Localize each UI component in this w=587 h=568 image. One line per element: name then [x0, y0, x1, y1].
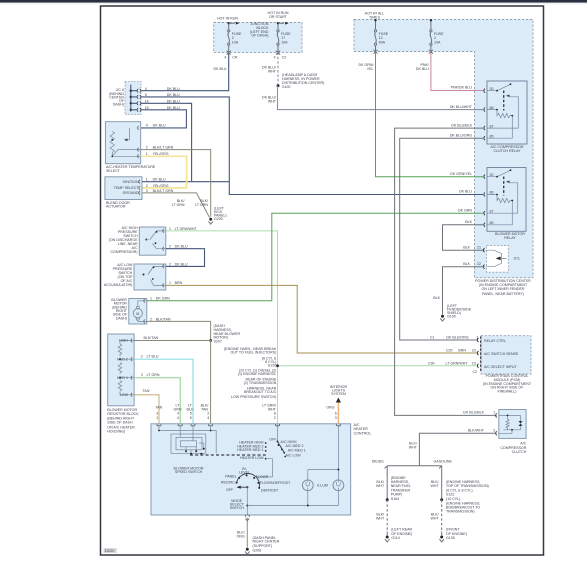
svg-text:BLK/LT GRN: BLK/LT GRN [153, 189, 174, 193]
svg-text:LOW PRESSURE SWITCH): LOW PRESSURE SWITCH) [231, 395, 276, 399]
wire ORG interior lights to control head [337, 403, 339, 424]
svg-text:FLOOR/DEFROST: FLOOR/DEFROST [260, 481, 291, 485]
svg-text:OFF: OFF [269, 438, 277, 442]
fuse 2 10A (junction block) [228, 23, 230, 53]
svg-text:ORG: ORG [326, 406, 334, 410]
svg-text:86: 86 [490, 106, 494, 110]
label J/C 6 [109, 88, 125, 106]
svg-text:HOUSING): HOUSING) [107, 430, 125, 434]
svg-text:CONTROL: CONTROL [354, 431, 372, 435]
label HOT AT ALL TIMES [365, 11, 385, 19]
svg-text:BLK/LT GRN: BLK/LT GRN [153, 145, 174, 149]
svg-text:2: 2 [493, 429, 495, 433]
svg-text:SWITCH: SWITCH [230, 506, 245, 510]
svg-text:BRN: BRN [175, 281, 183, 285]
mode select switch [237, 474, 260, 488]
svg-text:OUT TO FUEL INJECTORS): OUT TO FUEL INJECTORS) [230, 351, 276, 355]
wire DK BLU J/C6 pin5 to blower relay 86 [141, 97, 483, 195]
svg-text:WHT: WHT [431, 484, 440, 488]
svg-text:21: 21 [477, 245, 481, 249]
svg-text:TIMES: TIMES [369, 16, 381, 20]
ground G200 [209, 218, 212, 221]
svg-text:TAN: TAN [155, 406, 162, 410]
label A/C COMPRESSOR CLUTCH RELAY [491, 145, 524, 153]
wire DK BLU blend door ignition [142, 181, 229, 183]
wire DK BLU/BLK relay 87 to compressor clutch [395, 128, 497, 415]
svg-text:WHT: WHT [376, 517, 385, 521]
svg-text:HEATER LOW: HEATER LOW [240, 456, 264, 460]
connector cavity numbers [156, 412, 337, 420]
fuse 12 40A (PDC) [374, 20, 376, 52]
control head bottom pin [245, 515, 249, 517]
wire DK BLU high to low pressure switch [166, 249, 205, 267]
svg-text:G114: G114 [391, 536, 400, 540]
svg-text:DK GRN/YEL: DK GRN/YEL [450, 172, 472, 176]
svg-text:RIGHT CENTER: RIGHT CENTER [253, 540, 280, 544]
svg-text:87: 87 [490, 124, 494, 128]
label POWER DISTRIBUTION CENTER [475, 279, 531, 296]
splice S207 [209, 339, 212, 342]
label A/C HIGH PRESSURE SWITCH [109, 226, 139, 254]
svg-text:1: 1 [150, 297, 152, 301]
svg-text:DK GRN: DK GRN [458, 208, 472, 212]
svg-text:LT GRN: LT GRN [147, 373, 160, 377]
svg-text:WHT: WHT [268, 70, 277, 74]
svg-text:C2: C2 [473, 370, 478, 374]
svg-text:G206: G206 [253, 548, 262, 552]
wire BLK/LT GRN blend door ground to G200 [142, 193, 210, 218]
svg-text:10A: 10A [232, 40, 239, 44]
svg-text:BLK: BLK [463, 262, 470, 266]
svg-text:2: 2 [274, 416, 276, 420]
svg-text:IGNITION: IGNITION [123, 180, 139, 184]
svg-text:RELAY CTRL: RELAY CTRL [484, 339, 506, 343]
stamp 12020 [103, 548, 116, 553]
svg-text:WHT: WHT [376, 484, 385, 488]
blower motor [129, 299, 147, 325]
A/C heater control box [151, 424, 351, 515]
svg-text:SYSTEM: SYSTEM [331, 392, 346, 396]
svg-text:10A: 10A [434, 40, 441, 44]
label A/C LOW PRESSURE SWITCH [104, 263, 133, 287]
label BLOWER MOTOR SPEED SWITCH [174, 466, 204, 474]
svg-text:MED 1: MED 1 [117, 376, 128, 380]
svg-text:23: 23 [472, 349, 476, 353]
ground G206 [246, 548, 249, 551]
svg-text:S122: S122 [446, 492, 454, 496]
svg-text:C1: C1 [430, 336, 435, 340]
svg-text:3: 3 [141, 373, 143, 377]
A/C low pressure switch [134, 264, 166, 290]
svg-text:10A: 10A [281, 40, 288, 44]
illumination lamps [308, 426, 339, 480]
svg-text:4: 4 [177, 416, 179, 420]
interior lights system arrow [330, 385, 348, 396]
svg-text:LOW: LOW [120, 393, 129, 397]
svg-text:BLK: BLK [433, 296, 440, 300]
wire YEL/ORG temp select to blend door [141, 156, 187, 188]
blend door actuator [105, 177, 142, 200]
svg-text:DK GRN: DK GRN [156, 297, 170, 301]
label BLOWER MOTOR RELAY [495, 232, 525, 240]
splice S120 text block [224, 347, 277, 399]
svg-text:G105: G105 [446, 536, 455, 540]
svg-text:MED 2: MED 2 [117, 357, 128, 361]
svg-text:LEVEL: LEVEL [239, 471, 250, 475]
svg-text:BLK/TAN: BLK/TAN [156, 317, 171, 321]
svg-text:DK BLU: DK BLU [459, 190, 472, 194]
svg-text:DASH): DASH) [113, 103, 124, 107]
A/C high pressure switch [139, 227, 166, 255]
splice S100 [277, 84, 280, 87]
svg-text:22: 22 [477, 262, 481, 266]
svg-text:2: 2 [150, 317, 152, 321]
wire BLK/WHT compressor clutch to engine grounds [419, 433, 496, 466]
wire BLK/ORG control head to G206 [246, 518, 248, 548]
link heater low to mode floor contact [255, 459, 272, 477]
svg-text:BLK/TAN: BLK/TAN [144, 336, 159, 340]
svg-text:(1) ENGINE HARNESS,: (1) ENGINE HARNESS, [238, 372, 277, 376]
svg-text:HIGH: HIGH [119, 339, 128, 343]
label POWERTRAIN CONTROL MODULE [483, 374, 532, 394]
svg-text:WHT: WHT [431, 517, 440, 521]
svg-text:RESISTOR BLOCK: RESISTOR BLOCK [107, 412, 139, 416]
svg-text:86: 86 [490, 191, 494, 195]
powertrain control module PCM [477, 336, 531, 374]
svg-text:30: 30 [490, 173, 494, 177]
svg-text:12020: 12020 [104, 549, 114, 553]
A/C compressor clutch [496, 410, 526, 439]
svg-text:A/C SWITCH SENSE: A/C SWITCH SENSE [484, 352, 519, 356]
svg-text:OFF: OFF [226, 488, 234, 492]
svg-text:2: 2 [169, 245, 171, 249]
svg-text:A/C MED 1: A/C MED 1 [288, 449, 306, 453]
svg-text:1: 1 [476, 336, 478, 340]
fusible link JC1 [483, 246, 508, 273]
ground G114 [386, 536, 389, 539]
svg-text:DK BLU: DK BLU [416, 67, 429, 71]
svg-text:SELECT: SELECT [106, 169, 121, 173]
wire BLK/TAN resistor high to control head [134, 341, 211, 424]
svg-text:2: 2 [141, 355, 143, 359]
svg-text:23: 23 [472, 361, 476, 365]
svg-text:A/C MED 2: A/C MED 2 [286, 444, 304, 448]
label A/C HEATER CONTROL [354, 423, 372, 436]
svg-text:JC1: JC1 [514, 257, 520, 261]
wire DK BLU J/C6 pin15 to temp select pin4 [141, 110, 187, 128]
svg-text:DK BLU: DK BLU [167, 87, 180, 91]
svg-text:GASOLINE: GASOLINE [434, 460, 453, 464]
svg-text:2: 2 [146, 145, 148, 149]
svg-text:CLUTCH RELAY: CLUTCH RELAY [493, 149, 521, 153]
svg-text:PNK/DK BLU: PNK/DK BLU [451, 86, 473, 90]
wire PNK/DK BLU fuse2(PDC) to relay 30 [431, 52, 483, 91]
wire DK BLU/ORG relay 85 to PCM [400, 138, 483, 340]
svg-text:TEMP SELECT: TEMP SELECT [114, 186, 140, 190]
svg-text:1: 1 [169, 281, 171, 285]
svg-text:4: 4 [145, 87, 147, 91]
svg-text:1: 1 [156, 416, 158, 420]
svg-text:DK BLU/ORG: DK BLU/ORG [446, 336, 468, 340]
wire DK GRN/YEL fuse12 to blower relay 30 [376, 52, 484, 177]
svg-text:PUMP): PUMP) [391, 492, 403, 496]
svg-text:DK BLU: DK BLU [175, 262, 188, 266]
svg-text:1: 1 [493, 411, 495, 415]
svg-text:4: 4 [274, 56, 276, 60]
ground G105 [440, 536, 443, 539]
svg-text:OR START: OR START [269, 15, 288, 19]
svg-text:HOT IN RUN: HOT IN RUN [217, 16, 238, 20]
svg-text:BREAKOUT TO A/C: BREAKOUT TO A/C [244, 390, 277, 394]
wire BLK/TAN blower pin2 to splice S207 [147, 321, 211, 340]
svg-text:A/C SELECT INPUT: A/C SELECT INPUT [484, 365, 517, 369]
svg-text:WHT: WHT [268, 100, 277, 104]
svg-text:DK BLU/BLK: DK BLU/BLK [463, 411, 484, 415]
svg-text:40A: 40A [379, 40, 386, 44]
svg-text:GROUND: GROUND [123, 191, 139, 195]
svg-text:4: 4 [207, 416, 209, 420]
wire BLK/LT GRN temp select pin2 to G200 [141, 150, 211, 217]
control head top connector pins [157, 424, 340, 426]
svg-text:WHT: WHT [409, 446, 418, 450]
svg-text:ON LEFT INNER FENDER: ON LEFT INNER FENDER [481, 287, 524, 291]
wire TAN resistor low to control head [134, 395, 159, 423]
svg-text:BLK: BLK [463, 245, 470, 249]
svg-text:DK BLU: DK BLU [153, 178, 166, 182]
svg-text:YEL/ORG: YEL/ORG [153, 184, 169, 188]
label HOT IN RUN OR START [268, 11, 289, 19]
blower motor resistor block [108, 334, 134, 406]
svg-text:OF DASH): OF DASH) [251, 34, 268, 38]
svg-text:ILLUM: ILLUM [317, 484, 328, 488]
svg-text:2: 2 [169, 262, 171, 266]
svg-text:DK BLU: DK BLU [175, 245, 188, 249]
power distribution center (dashed outline) [354, 20, 533, 278]
svg-text:TRANSMISSION): TRANSMISSION) [446, 510, 475, 514]
wire BLK relay 85 to JC1 pin 21 [443, 225, 485, 250]
svg-text:(SUPPORT): (SUPPORT) [253, 544, 273, 548]
svg-text:S207: S207 [214, 339, 222, 343]
svg-text:YEL: YEL [367, 67, 374, 71]
mechanical link (dashed) [190, 454, 268, 456]
svg-text:(2) TRANSMISSION: (2) TRANSMISSION [244, 381, 277, 385]
svg-text:TAN: TAN [143, 389, 150, 393]
top window bar [0, 0, 587, 3]
svg-text:CR: CR [232, 56, 238, 60]
svg-text:1: 1 [169, 227, 171, 231]
svg-text:COMPRESSOR): COMPRESSOR) [110, 250, 137, 254]
svg-text:ACTUATOR: ACTUATOR [106, 205, 126, 209]
svg-text:DIESEL: DIESEL [372, 460, 385, 464]
svg-text:PANEL: PANEL [225, 475, 237, 479]
label BLOWER MOTOR RESISTOR BLOCK [107, 408, 139, 434]
label JUNCTION BLOCK [250, 22, 269, 38]
svg-text:PANEL, NEAR BATTERY): PANEL, NEAR BATTERY) [482, 292, 524, 296]
svg-text:ACCUMULATOR): ACCUMULATOR) [104, 283, 133, 287]
svg-text:3: 3 [335, 416, 337, 420]
svg-text:S164: S164 [391, 497, 399, 501]
A/C compressor clutch relay U1 [484, 81, 527, 144]
wire BLK/WHT to G114 (dashed) [386, 500, 388, 532]
svg-text:LT BLU: LT BLU [147, 355, 159, 359]
svg-text:FIREWALL): FIREWALL) [497, 390, 516, 394]
svg-text:G100: G100 [447, 315, 456, 319]
svg-text:30: 30 [490, 87, 494, 91]
diesel/gasoline split [385, 466, 442, 500]
svg-text:SIDE OF DASH: SIDE OF DASH [107, 421, 133, 425]
mode switch ground line [246, 487, 248, 515]
svg-text:1: 1 [146, 178, 148, 182]
svg-text:LT GRN/WHT: LT GRN/WHT [445, 361, 468, 365]
svg-text:C90: C90 [428, 361, 435, 365]
fuse 17 10A (junction block) [277, 23, 279, 53]
svg-text:LT GRN: LT GRN [195, 203, 208, 207]
svg-text:A/C LOW: A/C LOW [286, 454, 302, 458]
svg-text:2: 2 [146, 184, 148, 188]
svg-text:C2: C2 [282, 56, 287, 60]
svg-text:LT GRN/WHT: LT GRN/WHT [175, 227, 198, 231]
svg-text:G200: G200 [214, 217, 223, 221]
svg-text:DASH): DASH) [116, 316, 127, 320]
svg-text:4: 4 [146, 124, 148, 128]
wire DK BLU fuse2 to J/C6 pin4 [141, 52, 229, 90]
svg-text:M: M [136, 312, 139, 316]
svg-text:3: 3 [146, 189, 148, 193]
label BLOWER MOTOR [111, 298, 127, 321]
svg-text:85: 85 [490, 221, 494, 225]
svg-text:87: 87 [490, 209, 494, 213]
wire BRN low pressure to PCM [166, 285, 478, 353]
svg-text:BLK/WHT: BLK/WHT [468, 429, 485, 433]
svg-text:DK BLU: DK BLU [214, 67, 227, 71]
wire BLK JC1 pin 22 to G100 [443, 267, 485, 315]
svg-text:C20: C20 [446, 349, 453, 353]
svg-text:DK BLU/WHT: DK BLU/WHT [450, 105, 473, 109]
svg-text:5: 5 [190, 416, 192, 420]
svg-text:RELAY: RELAY [504, 236, 516, 240]
svg-text:85: 85 [490, 134, 494, 138]
splice S122 [440, 498, 443, 501]
wire DK GRN blower to relay 87 [147, 213, 483, 301]
wire DK BLU/WHT to A/C compressor clutch relay 86 [278, 86, 484, 110]
wire DK BLU/WHT fuse17 down (dashed to splice) [277, 52, 279, 85]
wire LT GRN/WHT high pressure to PCM and control head [166, 231, 278, 423]
junction block (dashed fuse box, left) [214, 23, 302, 53]
heater fan contacts [237, 440, 264, 460]
svg-text:DK BLU/BLK: DK BLU/BLK [451, 123, 472, 127]
svg-text:BRN: BRN [458, 349, 466, 353]
svg-text:SPEED SWITCH: SPEED SWITCH [175, 470, 203, 474]
splice S164 [386, 498, 389, 501]
svg-text:RECIRC: RECIRC [221, 481, 235, 485]
wire DK BLU J/C6 pin14 down to blend door feed [141, 103, 192, 181]
svg-text:ORG: ORG [237, 535, 245, 539]
fuse output connector marks [227, 50, 433, 55]
page frame [101, 6, 544, 555]
A/C-heater temperature select [105, 122, 140, 164]
label A/C COMPRESSOR CLUTCH [500, 442, 526, 455]
blower motor speed switch (nested contacts) [159, 426, 216, 453]
svg-text:S100: S100 [282, 85, 290, 89]
wire BLK/WHT to G105 (dashed) [441, 500, 443, 532]
svg-text:HEATER MED 1: HEATER MED 1 [237, 448, 263, 452]
svg-text:S120: S120 [268, 363, 276, 367]
svg-text:CLUTCH: CLUTCH [512, 450, 527, 454]
svg-text:DEFROST: DEFROST [261, 489, 279, 493]
svg-text:DK BLU: DK BLU [153, 124, 166, 128]
svg-text:BLK: BLK [465, 220, 472, 224]
connector J/C 6 [125, 82, 141, 115]
svg-text:FLOOR: FLOOR [256, 475, 269, 479]
blower motor relay U2 [484, 168, 526, 232]
fuse 2 10A (PDC) [430, 20, 432, 52]
svg-text:DK BLU/ORG: DK BLU/ORG [450, 133, 472, 137]
svg-text:4: 4 [224, 56, 226, 60]
wire LT GRN resistor med1 to control head [134, 378, 180, 424]
ground G100 [441, 315, 444, 318]
svg-text:LT GRN: LT GRN [172, 203, 185, 207]
wire LT BLU resistor med2 to control head [134, 359, 193, 423]
